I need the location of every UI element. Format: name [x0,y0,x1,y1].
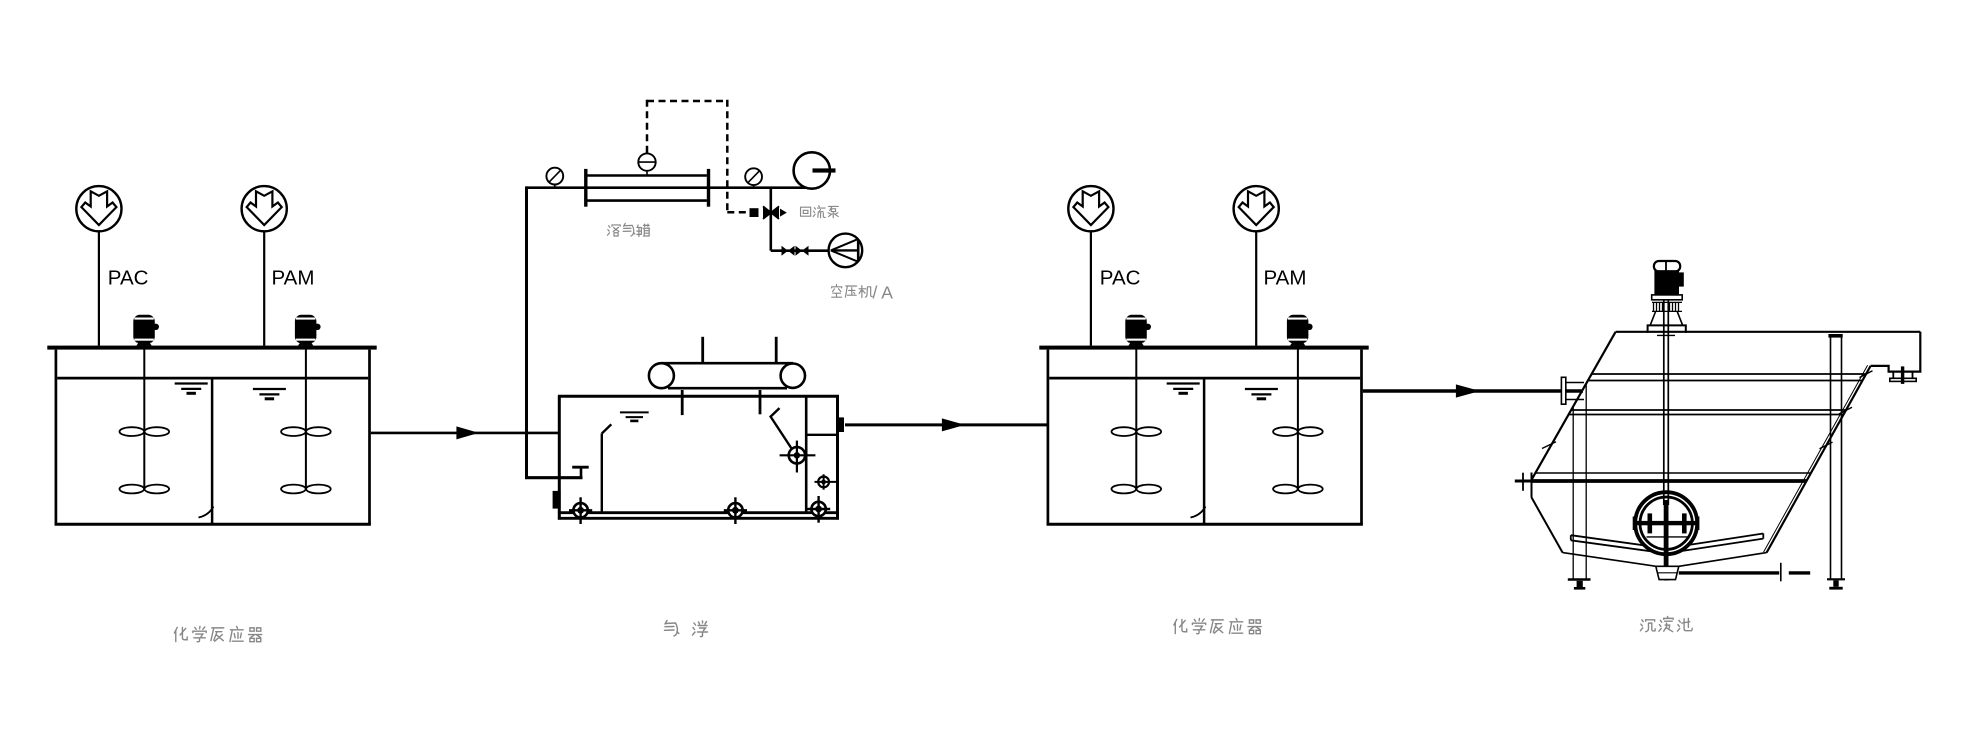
svg-text:/ A: / A [873,283,894,303]
